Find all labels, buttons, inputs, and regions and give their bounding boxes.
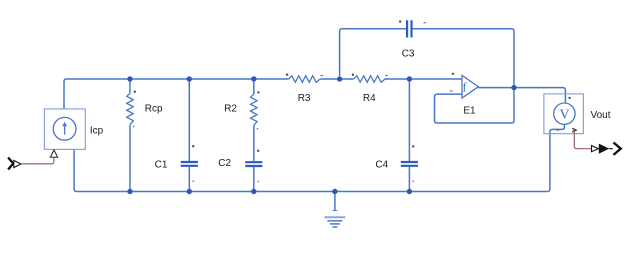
wire between R3 and R4 bbox=[320, 78, 354, 80]
node E1 output junction bbox=[511, 85, 516, 90]
svg-text:C4: C4 bbox=[375, 159, 388, 170]
wire E1 output to Vout bbox=[478, 88, 566, 104]
Vout terminal marks bbox=[568, 97, 570, 99]
svg-text:E1: E1 bbox=[463, 105, 476, 116]
capacitor C4 wires bbox=[408, 79, 410, 192]
svg-text:R3: R3 bbox=[298, 93, 311, 104]
svg-text:Icp: Icp bbox=[90, 125, 104, 136]
capacitor C2 plates bbox=[245, 162, 262, 166]
capacitor C1 plates bbox=[181, 162, 198, 166]
wire bottom rail bbox=[74, 149, 547, 191]
node C1 bottom bbox=[187, 189, 192, 194]
op-amp E1 triangle bbox=[462, 75, 478, 98]
svg-text:R4: R4 bbox=[363, 93, 376, 104]
svg-text:R2: R2 bbox=[224, 104, 237, 115]
C3 terminal marks bbox=[399, 20, 401, 22]
C1 terminal marks bbox=[192, 145, 194, 147]
input port arrow bbox=[8, 158, 13, 170]
resistor R3 bbox=[289, 76, 320, 83]
svg-text:Rcp: Rcp bbox=[145, 104, 163, 115]
R3 terminal marks bbox=[286, 74, 288, 76]
Rcp terminal marks bbox=[134, 91, 136, 93]
svg-text:V: V bbox=[560, 107, 570, 122]
R2 terminal marks bbox=[257, 91, 259, 93]
svg-text:Vout: Vout bbox=[591, 110, 611, 121]
E1 terminal marks bbox=[452, 73, 454, 75]
node R2 top bbox=[251, 76, 256, 81]
resistor Rcp bbox=[129, 79, 131, 93]
node C2 bottom bbox=[251, 189, 256, 194]
wire Vout to output port bbox=[574, 132, 591, 149]
voltmeter Vout circle bbox=[554, 103, 575, 124]
node ground junction bbox=[332, 189, 337, 194]
node R4-C4 junction bbox=[407, 76, 412, 81]
output port arrow bbox=[592, 146, 599, 152]
R4 terminal marks bbox=[352, 74, 354, 76]
resistor R2 bbox=[253, 79, 255, 94]
wire top rail from Icp to R3 bbox=[64, 79, 289, 109]
Icp control port triangle bbox=[50, 150, 57, 157]
node C1 top bbox=[187, 76, 192, 81]
capacitor C3 plates bbox=[407, 20, 411, 37]
node Rcp bottom bbox=[127, 189, 132, 194]
wire from R4 to E1 + input bbox=[385, 78, 462, 80]
ground bbox=[334, 192, 336, 211]
current source Icp box bbox=[44, 109, 85, 149]
capacitor C1 wires bbox=[188, 79, 190, 192]
Vout ps port mark bbox=[572, 128, 576, 132]
C2 terminal marks bbox=[257, 150, 259, 152]
svg-text:C1: C1 bbox=[155, 159, 168, 170]
capacitor C4 plates bbox=[401, 162, 418, 166]
node Rcp top bbox=[127, 76, 132, 81]
voltmeter Vout box bbox=[544, 94, 584, 134]
svg-text:C2: C2 bbox=[218, 158, 231, 169]
node R3-R4 junction bbox=[337, 76, 342, 81]
C4 terminal marks bbox=[412, 145, 414, 147]
wire control signal to Icp bbox=[21, 158, 54, 164]
node C4 bottom bbox=[407, 189, 412, 194]
current source Icp arrow bbox=[64, 126, 66, 135]
wire C3 branch loop bbox=[340, 29, 514, 88]
wire Vout negative to bottom rail bbox=[547, 124, 564, 191]
svg-text:f: f bbox=[462, 79, 467, 94]
current source Icp circle bbox=[53, 117, 76, 140]
wire E1 feedback loop to - input bbox=[435, 88, 515, 123]
capacitor C2 wires bbox=[253, 126, 255, 192]
svg-text:C3: C3 bbox=[402, 49, 415, 60]
resistor R4 bbox=[354, 76, 385, 83]
